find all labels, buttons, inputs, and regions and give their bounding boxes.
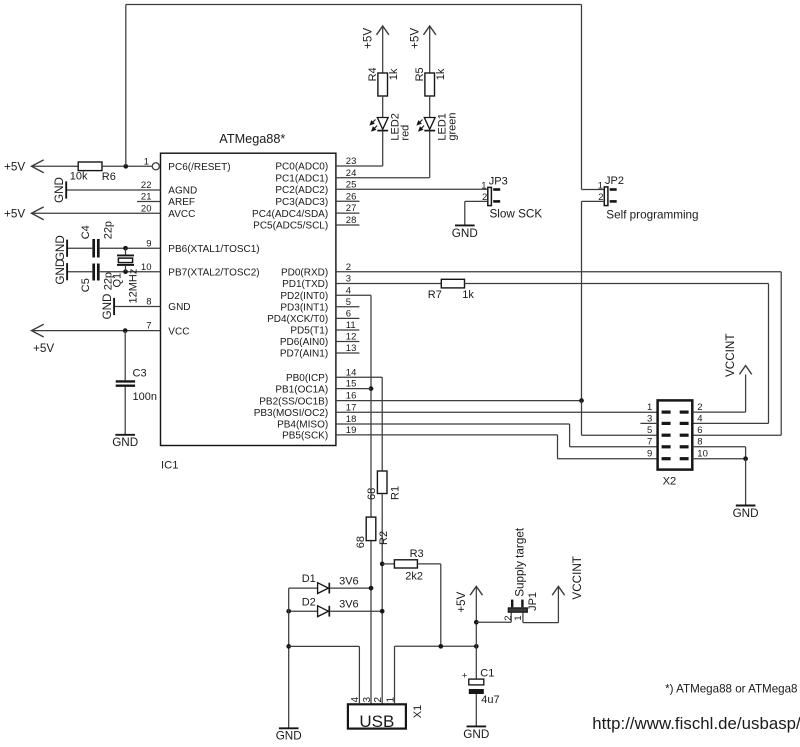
svg-text:PB0(ICP): PB0(ICP): [286, 373, 328, 384]
svg-text:Supply target: Supply target: [513, 527, 526, 597]
svg-text:PD0(RXD): PD0(RXD): [281, 267, 328, 278]
svg-text:GND: GND: [168, 302, 190, 313]
svg-text:red: red: [400, 125, 412, 141]
node VCCINT supply arrow at X2: [739, 366, 751, 375]
wire X2 pin 2 to VCCINT arrow: [692, 411, 745, 413]
svg-text:R1: R1: [390, 486, 402, 500]
wire JP3 pin 2 to ground: [465, 200, 488, 202]
IC1 pin 27 stub (n.c.): [336, 212, 360, 214]
svg-text:1k: 1k: [388, 68, 400, 80]
wire pin10 left segment to C5: [67, 271, 92, 273]
svg-text:JP2: JP2: [605, 175, 624, 187]
svg-text:GND: GND: [463, 728, 489, 741]
svg-text:D1: D1: [302, 573, 316, 585]
wire LED1 to IC: [429, 131, 431, 178]
junction +5V rail: [474, 644, 479, 649]
svg-text:+5V: +5V: [455, 591, 468, 612]
wire down to C3: [124, 331, 126, 381]
svg-text:http://www.fischl.de/usbasp/: http://www.fischl.de/usbasp/: [592, 714, 800, 733]
junction JP2-2 / PB2: [579, 398, 584, 403]
wire PD1 to R7: [336, 283, 441, 285]
resistor R4: [378, 73, 388, 96]
svg-text:PC4(ADC4/SDA): PC4(ADC4/SDA): [252, 209, 328, 220]
wire down to X2 pin 5: [581, 401, 583, 436]
svg-text:AVCC: AVCC: [168, 209, 195, 220]
ground: [467, 725, 487, 727]
svg-text:100n: 100n: [133, 391, 157, 403]
wire PD0 to far right riser: [336, 271, 781, 273]
svg-text:1: 1: [598, 180, 603, 191]
svg-text:green: green: [447, 112, 459, 140]
svg-text:22p: 22p: [102, 221, 114, 239]
svg-text:GND: GND: [733, 507, 759, 520]
junction pin9/crystal: [123, 246, 128, 251]
IC1 pin 6 stub (n.c.): [336, 317, 360, 319]
ground: [455, 224, 475, 226]
resistor R2: [366, 517, 376, 541]
jumper JP3: [488, 187, 492, 205]
svg-text:JP1: JP1: [527, 592, 539, 611]
wire +5V rail down: [475, 586, 477, 679]
junction rail / JP1 branch: [474, 620, 479, 625]
junction pins 8/10: [743, 456, 748, 461]
svg-text:PC3(ADC3): PC3(ADC3): [275, 197, 328, 208]
junction D2 / D-: [380, 609, 385, 614]
svg-text:R4: R4: [367, 67, 379, 81]
IC1 pin 26 stub (n.c.): [336, 200, 360, 202]
wire into JP2 pin 1: [582, 189, 605, 191]
svg-text:PB7(XTAL2/TOSC2): PB7(XTAL2/TOSC2): [168, 267, 259, 278]
node VCCINT supply arrow: [552, 586, 564, 595]
junction PB1 / D+: [369, 386, 374, 391]
node +5V supply arrow above R4: [377, 26, 389, 35]
wire GND pin8: [114, 306, 160, 308]
capacitor C4 plates: [92, 239, 95, 258]
svg-text:PD4(XCK/T0): PD4(XCK/T0): [267, 314, 328, 325]
svg-text:C3: C3: [133, 367, 147, 379]
svg-text:PD3(INT1): PD3(INT1): [280, 303, 328, 314]
zener diode D2: [318, 606, 329, 617]
wire R5 to LED1: [429, 96, 431, 118]
X2 pads row 3: [662, 434, 671, 437]
svg-text:+5V: +5V: [362, 28, 375, 49]
svg-text:VCCINT: VCCINT: [724, 333, 737, 377]
node +5V at VCC: supply arrow: [32, 324, 44, 337]
wire D- to R3: [382, 563, 394, 565]
svg-text:1: 1: [385, 697, 396, 703]
resistor R3: [394, 560, 417, 568]
svg-text:GND: GND: [101, 294, 114, 320]
resistor R7: [441, 279, 464, 288]
wire down right side to JP2 pin 1: [581, 5, 583, 190]
junction rail / USB pin4 wire: [286, 644, 291, 649]
crystal Q1: [125, 248, 127, 254]
svg-text:R7: R7: [428, 289, 442, 301]
svg-text:+5V: +5V: [33, 342, 54, 355]
svg-text:10: 10: [697, 449, 708, 460]
svg-text:GND: GND: [112, 436, 138, 449]
svg-text:R5: R5: [414, 67, 426, 81]
wire D+ riser down to R2: [370, 295, 372, 517]
resistor R6: [78, 162, 102, 171]
svg-text:PC1(ADC1): PC1(ADC1): [275, 173, 328, 184]
LED1 emission arrows: [417, 120, 422, 125]
wire R7 to right riser: [465, 283, 769, 285]
wire PB0 to D- riser: [336, 376, 382, 378]
wire R4 to LED2: [382, 96, 384, 118]
wire C4 to pin 9: [100, 247, 161, 249]
svg-text:+5V: +5V: [4, 208, 25, 221]
svg-text:VCC: VCC: [168, 326, 189, 337]
svg-text:C5: C5: [80, 278, 92, 292]
svg-text:+5V: +5V: [4, 161, 25, 174]
svg-text:3: 3: [362, 697, 373, 703]
ground: [279, 727, 299, 729]
wire PB2 to JP2 junction: [336, 400, 582, 402]
junction R3 / +5V wire: [438, 644, 443, 649]
svg-text:1: 1: [481, 180, 486, 191]
wire D1 anode from GND rail: [289, 587, 318, 589]
connector X2 body: [658, 400, 693, 469]
wire C1 to ground: [475, 694, 477, 726]
svg-text:C1: C1: [480, 668, 494, 680]
wire X2 pin 10 to GND: [692, 458, 745, 460]
capacitor C1 (polarized): [469, 679, 484, 685]
ground: [66, 263, 68, 280]
svg-text:1k: 1k: [462, 289, 474, 301]
svg-text:X2: X2: [663, 475, 677, 487]
junction D1 / D+: [369, 586, 374, 591]
LED LED1 green: [424, 118, 435, 130]
wire /RESET up to top: [125, 5, 127, 167]
svg-text:GND: GND: [276, 730, 302, 743]
ground: [113, 298, 115, 315]
svg-text:1k: 1k: [435, 68, 447, 80]
junction pin10/crystal: [123, 269, 128, 274]
wire PC2 to JP3 pin 1: [336, 188, 488, 190]
wire R1 down to USB pin 2: [381, 494, 383, 705]
junction rail / D2: [286, 609, 291, 614]
svg-text:IC1: IC1: [161, 459, 178, 471]
wire PD2 to D+ riser: [336, 294, 371, 296]
svg-text:R2: R2: [378, 531, 390, 545]
svg-text:R3: R3: [410, 548, 424, 560]
wire JP2 pin 2 down to PB2 net: [582, 200, 605, 202]
svg-text:D2: D2: [302, 596, 316, 608]
wire VCC: [32, 330, 161, 332]
wire +5V to R4: [382, 26, 384, 73]
IC1 pin 13 stub (n.c.): [336, 352, 360, 354]
svg-text:*) ATMega88 or ATMega8: *) ATMega88 or ATMega8: [665, 683, 797, 696]
wire PB5 SCK with jog to X2 pin 9: [336, 434, 558, 436]
wire D2 cathode to D-: [330, 610, 382, 612]
wire GND rail for diodes: [288, 588, 290, 728]
svg-text:PC6(/RESET): PC6(/RESET): [168, 162, 230, 173]
wire C3 to ground: [124, 387, 126, 435]
svg-text:Slow SCK: Slow SCK: [490, 208, 543, 221]
svg-text:8: 8: [697, 437, 702, 448]
wire AGND to ground: [66, 189, 160, 191]
svg-text:GND: GND: [54, 259, 67, 285]
svg-text:C4: C4: [80, 225, 92, 239]
wire D1 cathode to D+: [330, 587, 371, 589]
IC U IC1 ATMega88 box: [161, 153, 336, 445]
LED2 emission arrows: [370, 120, 375, 125]
junction D- / R3: [380, 562, 385, 567]
svg-text:PB1(OC1A): PB1(OC1A): [275, 384, 328, 395]
wire riser down to X2 pin 4: [768, 284, 770, 424]
jumper JP1: [508, 608, 527, 612]
svg-text:5: 5: [647, 425, 652, 436]
node +5V supply arrow above R5: [424, 26, 436, 35]
svg-text:PB2(SS/OC1B): PB2(SS/OC1B): [259, 396, 328, 407]
svg-text:68: 68: [355, 536, 367, 548]
X2 pads row 4: [662, 445, 671, 448]
svg-text:+: +: [462, 670, 468, 681]
ground: [65, 181, 67, 198]
ground: [115, 434, 135, 436]
svg-text:VCCINT: VCCINT: [571, 556, 584, 600]
svg-text:3: 3: [647, 413, 652, 424]
wire R6 to IC pin1 circle: [102, 165, 152, 167]
svg-text:GND: GND: [53, 177, 66, 203]
X2 pin 3 stub (n.c.): [640, 422, 657, 424]
wire PB4 MISO with jog to X2 pin 7: [336, 423, 570, 425]
node +5V supply arrow near USB: [470, 586, 482, 595]
IC1 pin 28 stub (n.c.): [336, 224, 360, 226]
ground: [66, 240, 68, 257]
svg-text:2k2: 2k2: [405, 570, 423, 582]
LED LED2 red: [377, 118, 388, 130]
wire PB1 stub to D+: [336, 388, 371, 390]
IC1 pin 5 stub (n.c.): [336, 306, 360, 308]
wire D2 anode from GND rail: [289, 610, 318, 612]
svg-text:PB5(SCK): PB5(SCK): [282, 431, 328, 442]
svg-text:PB3(MOSI/OC2): PB3(MOSI/OC2): [254, 408, 328, 419]
zener diode D1: [318, 583, 329, 594]
svg-text:12MHz: 12MHz: [128, 269, 140, 304]
svg-text:3V6: 3V6: [339, 599, 359, 611]
svg-text:PD1(TXD): PD1(TXD): [282, 279, 328, 290]
capacitor C3: [116, 380, 135, 382]
svg-text:2: 2: [373, 697, 384, 703]
wire D- riser down to R1: [381, 377, 383, 471]
capacitor C5 plates: [92, 264, 95, 281]
svg-text:PD6(AIN0): PD6(AIN0): [280, 337, 328, 348]
wire R3 right and down to +5V rail: [417, 563, 440, 565]
svg-text:PC0(ADC0): PC0(ADC0): [275, 162, 328, 173]
svg-text:PC2(ADC2): PC2(ADC2): [275, 185, 328, 196]
svg-text:PB4(MISO): PB4(MISO): [277, 420, 328, 431]
svg-text:6: 6: [697, 425, 702, 436]
X2 pads row 1: [662, 411, 671, 414]
svg-text:10k: 10k: [70, 171, 88, 183]
svg-text:3V6: 3V6: [339, 576, 359, 588]
svg-text:2: 2: [697, 402, 702, 413]
svg-text:AGND: AGND: [168, 186, 197, 197]
wire JP1 pin1 to VCCINT arrow: [522, 612, 524, 622]
resistor R1: [377, 471, 387, 494]
svg-text:68: 68: [366, 488, 378, 500]
svg-text:9: 9: [647, 449, 652, 460]
X2 pads row 2: [662, 422, 671, 425]
svg-text:R6: R6: [102, 171, 116, 183]
svg-text:Self programming: Self programming: [606, 208, 698, 221]
svg-text:4: 4: [697, 413, 702, 424]
resistor R5: [425, 73, 435, 96]
wire +5V to R5: [429, 26, 431, 73]
svg-text:PB6(XTAL1/TOSC1): PB6(XTAL1/TOSC1): [168, 244, 259, 255]
svg-text:1: 1: [647, 402, 652, 413]
node /RESET: +5V supply arrow top-left: [32, 160, 44, 173]
IC1 pin 12 stub (n.c.): [336, 341, 360, 343]
wire C5 to pin 10: [100, 271, 161, 273]
jumper JP2: [604, 187, 608, 206]
svg-text:+5V: +5V: [409, 28, 422, 49]
wire X2 pin 8 to GND: [692, 446, 745, 448]
svg-text:ATMega88*: ATMega88*: [219, 132, 285, 146]
svg-text:Q1: Q1: [112, 273, 124, 288]
svg-text:GND: GND: [452, 227, 478, 240]
svg-text:X1: X1: [412, 705, 424, 718]
svg-text:4: 4: [350, 697, 361, 703]
svg-text:GND: GND: [54, 235, 67, 261]
wire JP1 pin2 branch: [476, 621, 511, 623]
X1 pin 4 wire to GND rail: [358, 646, 360, 704]
svg-text:PC5(ADC5/SCL): PC5(ADC5/SCL): [253, 221, 328, 232]
wire top horizontal run: [126, 4, 582, 6]
USB connector X1 body: [348, 704, 406, 728]
node +5V at AVCC: supply arrow: [32, 207, 44, 220]
wire PB3 MOSI to X2 pin 1: [336, 411, 658, 413]
svg-text:PD2(INT0): PD2(INT0): [280, 291, 328, 302]
X1 pin 1 wire to +5V rail: [394, 646, 396, 704]
IC1 pin 11 stub (n.c.): [336, 329, 360, 331]
svg-text:PD7(AIN1): PD7(AIN1): [280, 349, 328, 360]
X2 pads row 5: [662, 457, 671, 460]
svg-text:JP3: JP3: [489, 176, 508, 188]
svg-text:USB: USB: [359, 712, 394, 731]
svg-text:AREF: AREF: [168, 197, 195, 208]
IC1 pin1 inversion circle: [152, 163, 159, 170]
svg-text:4u7: 4u7: [481, 694, 499, 706]
IC1 pin 21 stub (AREF, n.c.): [137, 201, 161, 203]
ground: [736, 505, 756, 507]
junction VCC/C3: [123, 328, 128, 333]
wire LED2 to IC: [382, 131, 384, 166]
wire riser to X2 pin 6: [692, 434, 781, 436]
svg-text:7: 7: [647, 437, 652, 448]
wire R2 down to USB pin 3: [370, 541, 372, 705]
wire pin9 left segment to C4: [67, 247, 92, 249]
svg-text:PD5(T1): PD5(T1): [290, 326, 328, 337]
wire AVCC: [32, 212, 161, 214]
junction on /RESET at R6 output: [123, 164, 128, 169]
wire +5V arrow to R6: [32, 165, 79, 167]
